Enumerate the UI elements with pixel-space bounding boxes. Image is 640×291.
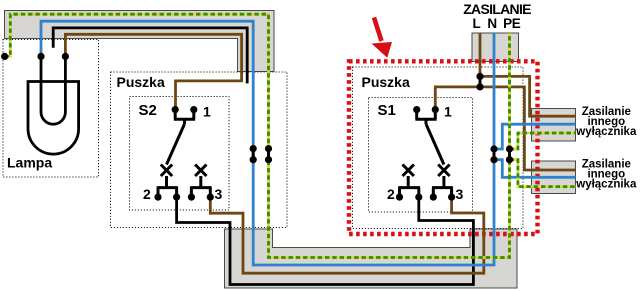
conduit: branch channel 1 (Zasilanie innego wylacznika, upper) (532, 109, 576, 142)
svg-text:S2: S2 (139, 102, 157, 119)
svg-text:Puszka: Puszka (117, 74, 165, 90)
svg-text:2: 2 (387, 186, 395, 202)
highlight: red dotted box around Puszka S1 (349, 61, 538, 234)
wire: brown feed to branch channel 1 (480, 76, 576, 116)
splice connector: green-yellow in S1 box (506, 145, 513, 163)
wire: brown L supply drop (479, 33, 482, 87)
lamp symbol outer tube (28, 82, 79, 155)
wire: blue feed to branch channel 1 (494, 124, 576, 149)
box: lamp enclosure (dotted) (3, 40, 99, 178)
svg-text:Lampa: Lampa (7, 155, 52, 171)
switch S2 terminal dots (154, 106, 214, 201)
label: Zasilanie innego wylacznika (upper) (575, 106, 637, 138)
switch S1 terminal dots (396, 106, 455, 201)
lamp filament / leads inner U (41, 56, 65, 124)
node: PE terminal at lamp (1, 53, 8, 60)
node: switched L terminal at lamp (62, 53, 69, 60)
svg-text:1: 1 (444, 104, 452, 120)
conduit: branch channel 2 (Zasilanie innego wylacznika, lower) (532, 161, 576, 194)
label: Zasilanie innego wylacznika (lower) (575, 158, 637, 190)
svg-text:Puszka: Puszka (362, 74, 410, 90)
switch S2 body (157, 110, 212, 198)
svg-text:wyłącznika: wyłącznika (575, 126, 637, 138)
svg-text:L: L (472, 16, 480, 31)
wire: brown traveller S2 terminal 3 to S1 terminal 3 (210, 197, 484, 273)
splice connector: blue in S1 box (490, 145, 497, 163)
wire: brown feed to branch channel 2 (480, 87, 576, 170)
wire: black traveller S2 terminal 2 to S1 terminal 2 (177, 197, 474, 284)
svg-text:ZASILANIE: ZASILANIE (463, 1, 531, 17)
wire: green-yellow feed to branch channel 2 (510, 160, 576, 187)
splice connector: blue in S2 box (250, 145, 257, 163)
box: switch S2 inner (dotted) (130, 97, 230, 211)
svg-text:S1: S1 (378, 102, 396, 119)
splice connector: green-yellow in S2 box (265, 145, 272, 163)
svg-text:1: 1 (203, 104, 211, 120)
node: N terminal at lamp (37, 53, 44, 60)
box: switch S1 inner (dotted) (369, 98, 473, 213)
conduit: top cable channel (L-shape, lamp to S2 box) (5, 11, 275, 72)
svg-text:3: 3 (456, 186, 464, 202)
svg-text:wyłącznika: wyłącznika (575, 178, 637, 190)
wire: blue feed to branch channel 2 (494, 160, 576, 178)
svg-text:2: 2 (143, 186, 151, 202)
splice connector: brown L in S1 box (476, 73, 483, 91)
svg-text:PE: PE (503, 16, 521, 31)
wire: brown L to S1 terminal 1 (435, 87, 480, 110)
red arrow pointing to Puszka S1 (372, 18, 393, 58)
svg-text:N: N (487, 16, 497, 31)
box: Puszka S1 (dotted) (353, 67, 524, 229)
wire: brown switched core S2 to lamp (65, 34, 241, 109)
svg-text:3: 3 (215, 186, 223, 202)
conduit: bottom cable channel (U-shape, S2 box to S1 box) (225, 229, 518, 288)
conduit: supply channel ZASILANIE (472, 33, 519, 62)
box: Puszka S2 (dotted) (111, 72, 288, 228)
switch S1 body (398, 110, 453, 198)
wire: PE green-yellow main (lamp to supply) (5, 14, 510, 257)
wire: N blue main (lamp to supply) (41, 21, 494, 265)
wire: black spare core in top channel (53, 28, 247, 84)
wire: green-yellow feed to branch channel 1 (510, 133, 576, 149)
